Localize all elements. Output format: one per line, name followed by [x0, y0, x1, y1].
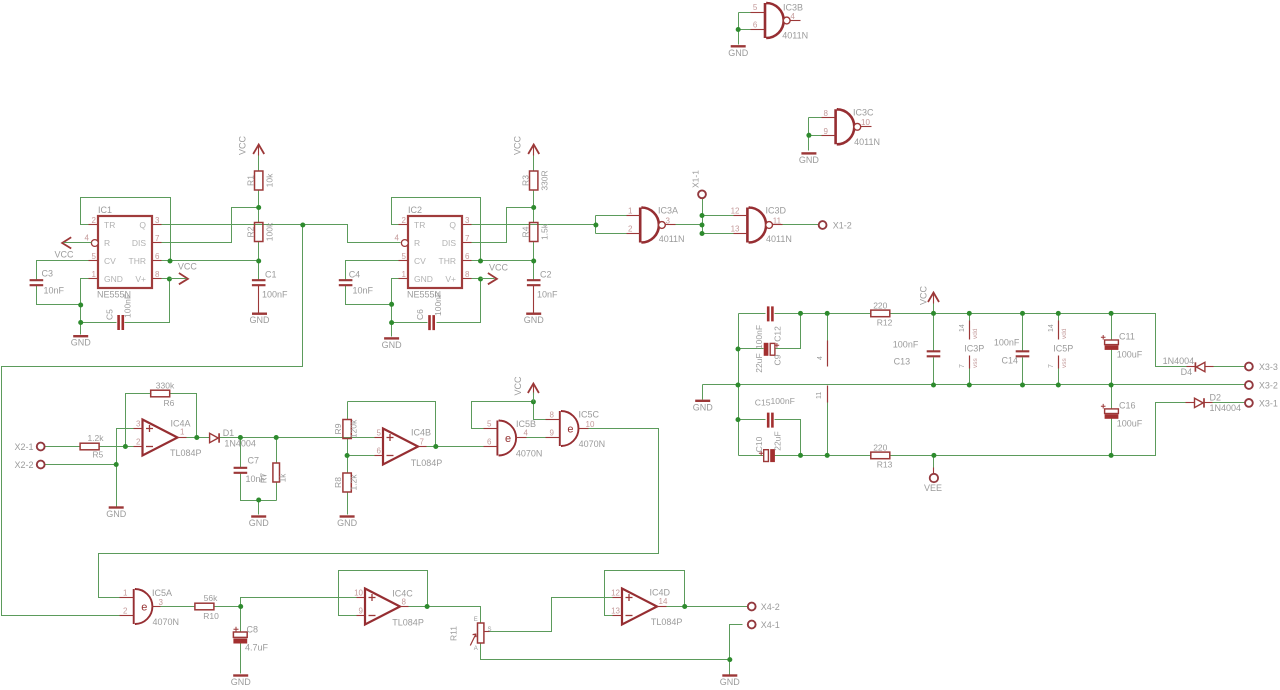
svg-text:vss: vss	[1061, 358, 1068, 369]
svg-text:4: 4	[85, 234, 90, 243]
wire: IC3C input tie to GND	[808, 118, 810, 151]
ground for IC3B	[731, 45, 746, 47]
svg-text:X1-1: X1-1	[691, 170, 701, 188]
capacitor C2 10nF	[527, 280, 541, 285]
junction at 480.5,261	[478, 259, 483, 264]
wire: IC1 THR row to R2/C1	[162, 260, 259, 262]
XOR gate IC5B 4070N	[497, 421, 516, 456]
svg-text:IC3B: IC3B	[783, 3, 803, 13]
wire: C7 column and GND row	[240, 438, 242, 468]
junction at 1022.5,385	[1020, 383, 1025, 388]
svg-text:VCC: VCC	[178, 262, 198, 272]
wire: VCC node down to IC5C pin8	[534, 402, 546, 420]
wire: IC1 CV to C3	[37, 261, 89, 281]
svg-text:e: e	[141, 601, 147, 613]
wire: IC2 THR row to R4/C2	[472, 260, 534, 262]
wire: C8 bottom to GND	[240, 644, 242, 674]
svg-text:TL084P: TL084P	[651, 617, 683, 627]
junction at 1022.5,313.4	[1020, 311, 1025, 316]
svg-text:10: 10	[861, 118, 870, 127]
IC5P power pins	[1058, 321, 1060, 340]
wire: VCC-R1-R2-C1 column	[258, 156, 260, 171]
svg-text:4: 4	[817, 356, 824, 360]
wire: IC2 CV to C4	[346, 261, 399, 281]
svg-text:R10: R10	[203, 611, 219, 621]
svg-text:9: 9	[359, 607, 364, 616]
wire: C3 bottom to GND column	[37, 286, 81, 305]
svg-text:5: 5	[402, 252, 407, 261]
wire: power section left grounded vertical	[738, 314, 740, 456]
svg-text:100nF: 100nF	[122, 294, 132, 318]
resistor R12 220	[871, 310, 890, 317]
junction at 1111.1,313.4	[1109, 311, 1114, 316]
svg-text:IC1: IC1	[98, 205, 112, 215]
op-amp IC4D TL084P	[622, 589, 657, 625]
junction at 933.5,313.4	[931, 311, 936, 316]
junction at 170,261	[168, 259, 173, 264]
svg-text:GND: GND	[382, 340, 403, 350]
svg-text:330k: 330k	[156, 381, 175, 391]
svg-text:5: 5	[377, 429, 382, 438]
svg-text:3: 3	[136, 420, 141, 429]
svg-text:12: 12	[731, 207, 740, 216]
VCC symbol above R1	[253, 145, 264, 155]
svg-text:10nF: 10nF	[537, 290, 558, 300]
wire: IC2 DIS to R3/R4 junction	[472, 208, 534, 243]
svg-text:C4: C4	[349, 270, 361, 280]
svg-text:1: 1	[92, 270, 97, 279]
wire: IC4C feedback loop	[339, 571, 428, 616]
IC2 pin stubs	[399, 224, 409, 226]
ground for IC2	[384, 337, 399, 339]
op-amp IC4C TL084P	[365, 589, 400, 625]
svg-text:C7: C7	[248, 456, 260, 466]
junction at 738,385	[736, 383, 741, 388]
wire: IC3A input tie	[595, 216, 597, 234]
junction at 533.4,401.8	[531, 399, 536, 404]
junction at 391.6,304.3	[389, 302, 394, 307]
wire: IC5A out to R10	[161, 606, 196, 608]
wire: IC5C output long run to IC5A input 1	[99, 429, 659, 598]
svg-text:R3: R3	[521, 175, 531, 186]
junction at 1058.3,313.4	[1056, 311, 1061, 316]
VCC symbol above IC5B/IC5C	[528, 384, 539, 394]
svg-text:GND: GND	[728, 48, 749, 58]
svg-text:1: 1	[123, 589, 128, 598]
svg-text:GND: GND	[524, 315, 545, 325]
svg-text:100nF: 100nF	[771, 396, 795, 406]
svg-text:IC4B: IC4B	[411, 428, 431, 438]
svg-text:THR: THR	[439, 256, 456, 266]
svg-text:10: 10	[586, 420, 595, 429]
IC IC2 NE555N box	[408, 216, 462, 288]
junction at 933.5,385	[931, 383, 936, 388]
wire: net Q1 long run to IC5A input 2	[2, 225, 303, 616]
svg-text:14: 14	[959, 324, 966, 332]
svg-text:4070N: 4070N	[153, 617, 180, 627]
svg-text:vdd: vdd	[972, 328, 979, 339]
junction at 116.2,464.5	[114, 462, 119, 467]
svg-text:22uF: 22uF	[754, 353, 764, 372]
capacitor C13 100nF	[927, 351, 941, 356]
junction at 258.7,500	[256, 498, 261, 503]
IC4P power pins	[827, 341, 829, 367]
svg-text:C13: C13	[894, 357, 911, 367]
svg-text:1.2k: 1.2k	[349, 474, 359, 491]
svg-text:9: 9	[823, 127, 828, 136]
svg-text:IC3C: IC3C	[853, 108, 874, 118]
svg-text:4011N: 4011N	[854, 137, 880, 147]
capacitor C10 22uF polarized	[764, 450, 769, 462]
svg-text:1N4004: 1N4004	[224, 439, 256, 449]
svg-text:3: 3	[666, 217, 671, 226]
svg-text:8: 8	[402, 598, 407, 607]
svg-text:GND: GND	[414, 274, 433, 284]
svg-text:GND: GND	[720, 677, 741, 687]
svg-text:vdd: vdd	[1061, 328, 1068, 339]
svg-text:1: 1	[402, 270, 407, 279]
op-amp IC4A TL084P	[143, 420, 178, 456]
junction at 738.2,29.5	[736, 27, 741, 32]
junction at 258.7,207.5	[256, 205, 261, 210]
svg-text:2: 2	[628, 225, 633, 234]
IC1 pin stubs	[89, 224, 99, 226]
svg-text:5: 5	[92, 252, 97, 261]
svg-text:R2: R2	[246, 226, 256, 237]
trimmer R11	[478, 623, 484, 643]
wire: C2 to GND stem	[533, 286, 535, 313]
svg-text:e: e	[505, 433, 511, 445]
junction at 427.1,606.5	[425, 604, 430, 609]
IC3P power pins	[969, 321, 971, 340]
wire: IC4C output to R11	[409, 606, 428, 608]
junction at 702,225	[700, 223, 705, 228]
ground for IC3C	[801, 152, 816, 154]
wire: IC3D output to X1-2	[783, 224, 819, 226]
wire: IC3B input tie to GND	[738, 13, 740, 45]
svg-text:4070N: 4070N	[579, 439, 606, 449]
svg-text:IC2: IC2	[408, 205, 422, 215]
resistor R7 1k	[273, 463, 280, 482]
svg-text:3: 3	[155, 216, 160, 225]
svg-text:100k: 100k	[265, 222, 275, 241]
svg-text:1: 1	[180, 428, 185, 437]
wire: IC1 Q to IC2 R	[162, 225, 401, 243]
capacitor C16 100uF polarized	[1105, 409, 1119, 414]
NAND gate IC3B 4011N	[765, 3, 784, 38]
svg-text:X4-1: X4-1	[761, 620, 780, 630]
svg-text:IC3D: IC3D	[766, 206, 787, 216]
ground for X4-1	[722, 674, 737, 676]
wire: C13 column	[933, 303, 935, 351]
ground below C2	[526, 313, 541, 315]
svg-text:VCC: VCC	[513, 376, 523, 396]
svg-text:1N4004: 1N4004	[1163, 356, 1195, 366]
svg-text:100nF: 100nF	[994, 338, 1020, 348]
wire: C1 to GND stem	[258, 286, 260, 313]
VCC arrow at IC1 reset pin	[62, 237, 71, 248]
diode D2 1N4004	[1195, 398, 1204, 407]
svg-text:100nF: 100nF	[433, 292, 443, 316]
wire: IC4D output to X4-2	[667, 606, 748, 608]
svg-text:C6: C6	[415, 309, 425, 320]
connector X1-1	[698, 190, 706, 198]
svg-text:TL084P: TL084P	[392, 618, 424, 628]
capacitor C1 100nF	[252, 280, 266, 285]
wire: IC4B output to IC5B input	[427, 446, 484, 448]
svg-text:TL084P: TL084P	[170, 448, 202, 458]
svg-text:C16: C16	[1119, 401, 1136, 411]
wire: IC4A feedback loop via R6	[126, 394, 152, 447]
svg-text:VCC: VCC	[55, 250, 75, 260]
capacitor C6 100nF	[430, 315, 434, 330]
svg-text:8: 8	[155, 270, 160, 279]
junction at 595.9,225	[593, 223, 598, 228]
svg-text:DIS: DIS	[442, 238, 457, 248]
wire: VCC top rail	[739, 313, 766, 315]
wire: IC4P pin4 wire	[827, 314, 829, 341]
junction at 196.8,437.5	[194, 435, 199, 440]
svg-text:9: 9	[549, 429, 554, 438]
VCC arrow at IC1 V+ pin	[179, 273, 188, 284]
svg-text:1.5k: 1.5k	[540, 223, 550, 240]
svg-text:7: 7	[420, 438, 425, 447]
svg-text:VEE: VEE	[924, 483, 942, 493]
wire: IC5B out to IC5C pin9	[527, 437, 546, 439]
svg-text:R5: R5	[92, 450, 103, 460]
junction at 800.5,313.4	[798, 311, 803, 316]
svg-text:1k: 1k	[279, 473, 288, 482]
capacitor C3 10nF	[30, 280, 44, 285]
svg-text:TL084P: TL084P	[411, 458, 443, 468]
resistor R6 330k	[151, 390, 170, 397]
junction at 738,419.6	[736, 417, 741, 422]
wire: IC2 V+ node and C6 row	[472, 278, 481, 280]
capacitor C4 10nF	[339, 280, 353, 285]
junction at 80.7,322.5	[78, 320, 83, 325]
resistor R2 100k	[255, 223, 263, 242]
svg-text:5: 5	[487, 420, 492, 429]
junction at 827.2,455.4	[825, 453, 830, 458]
svg-text:R13: R13	[877, 460, 893, 470]
svg-text:2: 2	[92, 216, 97, 225]
svg-text:3: 3	[465, 216, 470, 225]
svg-text:4: 4	[790, 12, 795, 21]
svg-text:10k: 10k	[265, 173, 275, 187]
svg-text:C1: C1	[265, 270, 277, 280]
svg-text:2: 2	[402, 216, 407, 225]
VCC symbol on power rail	[928, 293, 939, 303]
svg-text:VCC: VCC	[238, 135, 248, 155]
NAND gate IC3D 4011N	[747, 208, 766, 243]
junction at 302.8,225	[300, 223, 305, 228]
svg-text:100nF: 100nF	[262, 290, 288, 300]
resistor R10 56k	[195, 603, 214, 610]
svg-text:8: 8	[823, 109, 828, 118]
diode D4 1N4004	[1194, 362, 1196, 371]
svg-text:10nF: 10nF	[353, 286, 374, 296]
svg-text:100uF: 100uF	[1117, 350, 1143, 360]
svg-text:C3: C3	[42, 269, 54, 279]
junction at 738,349	[736, 347, 741, 352]
wire: IC4P pin11 wire	[827, 403, 829, 456]
ground for R8	[340, 515, 355, 517]
svg-text:GND: GND	[249, 518, 270, 528]
wire: VEE bottom rail	[739, 455, 764, 457]
wire: D2 to X3-1	[1213, 402, 1245, 404]
NAND gate IC3A 4011N	[640, 208, 659, 243]
svg-text:220: 220	[873, 301, 887, 311]
svg-text:11: 11	[816, 392, 823, 399]
svg-text:10: 10	[354, 589, 363, 598]
wire: D4 to X3-3	[1214, 366, 1245, 368]
wire: VEE stem	[933, 456, 935, 468]
svg-text:V+: V+	[135, 274, 146, 284]
resistor R1 10k	[255, 171, 263, 190]
XOR gate IC5A 4070N	[134, 589, 153, 624]
capacitor C15 100nF	[768, 413, 772, 428]
junction at 969.3,313.4	[967, 311, 972, 316]
svg-text:4: 4	[395, 234, 400, 243]
wire: IC2 Q to IC3A inputs	[472, 224, 596, 226]
svg-text:R: R	[414, 238, 420, 248]
ground for C7/R7	[251, 515, 266, 517]
svg-text:11: 11	[773, 217, 782, 226]
svg-text:TR: TR	[104, 220, 115, 230]
wire: C4 bottom to IC2 GND column	[346, 286, 392, 305]
junction at 702,233.5	[700, 231, 705, 236]
svg-text:6: 6	[487, 438, 492, 447]
svg-text:8: 8	[549, 411, 554, 420]
capacitor C7 10nF	[234, 468, 248, 473]
svg-text:IC5P: IC5P	[1053, 344, 1073, 354]
capacitor C5 100nF	[119, 315, 123, 330]
svg-text:R11: R11	[449, 626, 459, 641]
svg-text:Q: Q	[139, 220, 146, 230]
svg-text:IC5B: IC5B	[516, 419, 536, 429]
svg-text:1: 1	[628, 207, 633, 216]
VEE symbol below rail	[930, 474, 938, 482]
svg-text:VCC: VCC	[919, 285, 929, 305]
junction at 533.7,207.5	[531, 205, 536, 210]
IC2 reset pin bubble	[401, 240, 408, 247]
svg-text:GND: GND	[106, 509, 127, 519]
svg-text:VCC: VCC	[489, 263, 509, 273]
svg-text:X2-1: X2-1	[15, 442, 34, 452]
junction at 684.7,606.5	[682, 604, 687, 609]
svg-text:TR: TR	[414, 220, 425, 230]
svg-text:IC3P: IC3P	[964, 344, 984, 354]
svg-text:X2-2: X2-2	[15, 460, 34, 470]
wire: X2-2 to IC4A + input and GND	[45, 464, 117, 466]
svg-text:6: 6	[465, 252, 470, 261]
svg-text:1N4004: 1N4004	[1210, 403, 1242, 413]
svg-text:22uF: 22uF	[772, 431, 782, 450]
VCC arrow at IC2 V+ pin	[488, 273, 497, 284]
svg-text:e: e	[567, 423, 573, 435]
capacitor C14 100nF	[1016, 351, 1030, 356]
svg-text:100nF: 100nF	[754, 325, 764, 349]
svg-text:IC5A: IC5A	[152, 588, 172, 598]
NAND gate IC3C 4011N	[836, 109, 855, 144]
svg-text:12: 12	[611, 589, 620, 598]
junction at 276.2,437.5	[274, 435, 279, 440]
XOR gate IC5C 4070N	[560, 411, 579, 446]
svg-text:CV: CV	[414, 256, 426, 266]
junction at 933.9,455.4	[931, 453, 936, 458]
svg-text:6: 6	[377, 447, 382, 456]
svg-text:1.2k: 1.2k	[87, 433, 104, 443]
svg-text:A: A	[474, 646, 478, 652]
junction at 808.9,135.3	[806, 133, 811, 138]
svg-text:120k: 120k	[349, 419, 359, 438]
svg-text:GND: GND	[231, 677, 252, 687]
connector X2-1	[37, 443, 45, 451]
junction at 1111.1,455.4	[1109, 453, 1114, 458]
wire: R7 column	[276, 438, 278, 463]
svg-text:4: 4	[524, 429, 529, 438]
connector X3-1	[1245, 399, 1253, 407]
wire: IC2 GND pin column	[392, 279, 399, 337]
resistor R8 1.2k	[343, 473, 351, 492]
junction at 533.7,261	[531, 259, 536, 264]
svg-text:GND: GND	[71, 338, 92, 348]
ground for IC1	[73, 335, 88, 337]
wire: GND rail	[703, 384, 1245, 386]
wire: C15 row	[739, 419, 766, 421]
junction at 702,215.5	[700, 213, 705, 218]
connector X3-3	[1245, 363, 1253, 371]
junction at 729.8,659.6	[727, 657, 732, 662]
svg-text:3: 3	[159, 598, 164, 607]
wire: R8 bottom to GND	[347, 493, 349, 515]
capacitor C8 4.7uF polarized	[233, 632, 247, 637]
svg-text:4011N: 4011N	[659, 234, 685, 244]
svg-text:X3-2: X3-2	[1259, 381, 1278, 391]
wire: IC1 DIS to R1/R2 junction	[162, 208, 259, 243]
svg-text:7: 7	[155, 234, 160, 243]
wire: R11 bottom row to X4-1/GND node	[481, 643, 730, 660]
resistor R13 220	[871, 452, 890, 459]
svg-text:7: 7	[465, 234, 470, 243]
junction at 240.4,437.5	[238, 435, 243, 440]
wire: IC5P power pin wires	[1058, 314, 1060, 321]
wire: R11 wiper to IC4D + input	[490, 598, 613, 632]
svg-text:14: 14	[659, 597, 668, 606]
capacitor C12 100nF	[768, 306, 772, 321]
svg-text:S: S	[488, 627, 492, 633]
VCC symbol above R3	[528, 145, 539, 155]
svg-text:R1: R1	[246, 175, 256, 186]
diode D1 1N4004	[210, 433, 219, 442]
capacitor C11 100uF polarized	[1105, 340, 1119, 345]
wire: IC4D feedback loop	[605, 571, 685, 616]
junction at 969.3,385	[967, 383, 972, 388]
wire: C11 column	[1111, 314, 1113, 341]
junction at 1111.1,385	[1109, 383, 1114, 388]
svg-text:5: 5	[753, 3, 758, 12]
wire: X4-1 to GND node	[730, 625, 743, 660]
svg-text:8: 8	[465, 270, 470, 279]
svg-text:4011N: 4011N	[782, 31, 808, 41]
svg-text:7: 7	[1048, 364, 1055, 368]
svg-text:6: 6	[753, 21, 758, 30]
svg-text:CV: CV	[104, 256, 116, 266]
svg-text:E: E	[474, 617, 478, 623]
junction at 347.1,455.5	[345, 453, 350, 458]
svg-text:4011N: 4011N	[766, 234, 792, 244]
svg-text:C14: C14	[1002, 356, 1019, 366]
